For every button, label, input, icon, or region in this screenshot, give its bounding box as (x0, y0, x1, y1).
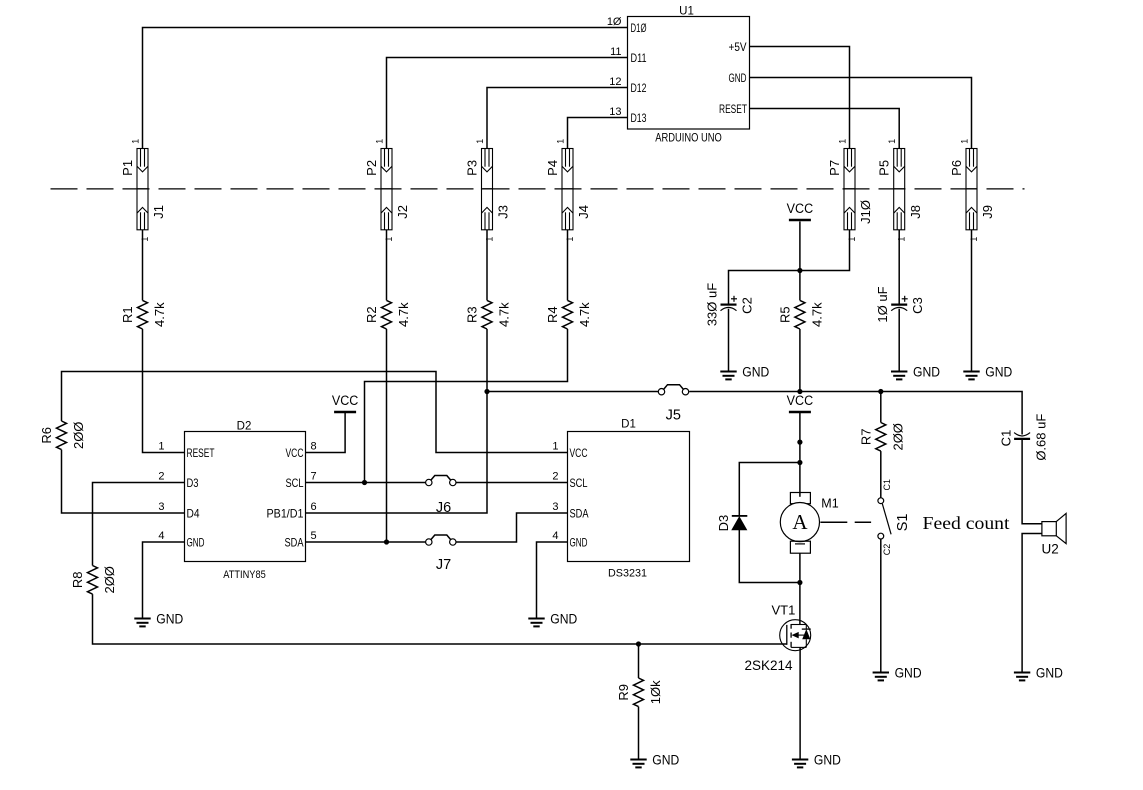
wire VCC net node to R7 (880, 392, 882, 423)
svg-text:D1: D1 (621, 419, 636, 431)
svg-text:D2: D2 (237, 421, 252, 433)
svg-text:M1: M1 (821, 497, 838, 511)
resistor R3 body (482, 300, 492, 329)
svg-text:R5: R5 (777, 306, 792, 323)
resistor R9 body (634, 678, 644, 707)
svg-text:4.7k: 4.7k (810, 302, 825, 327)
connector P7 (plug, top half) (827, 139, 855, 189)
IC D2 ATTINY85 (158, 421, 316, 582)
svg-text:1: 1 (969, 237, 979, 242)
wire R6 bottom to D4 pin 3 of D2 (62, 450, 185, 513)
pin 12 D12 of U1 (609, 76, 646, 95)
svg-text:D4: D4 (187, 506, 200, 520)
connector P4 (plug, top half) (545, 139, 573, 189)
svg-text:3: 3 (158, 501, 164, 513)
wire R5 to VCC net node (799, 329, 801, 392)
wire R4 down and over to SCL node (365, 329, 568, 483)
pin 2 D3 of D2 (158, 471, 198, 490)
svg-text:R2: R2 (364, 306, 379, 323)
svg-text:Ø.68 uF: Ø.68 uF (1034, 414, 1049, 461)
IC D1 DS3231 (552, 419, 689, 580)
wire D2 VCC pin 8 to VCC (306, 412, 346, 453)
svg-text:GND: GND (187, 535, 205, 549)
svg-text:1Ø: 1Ø (607, 16, 622, 28)
ground GND (U2/C1) (1014, 672, 1030, 674)
junction node VCC/C2/R5/J10 (797, 268, 802, 273)
svg-text:1: 1 (959, 139, 969, 144)
svg-text:33Ø uF: 33Ø uF (705, 283, 720, 326)
svg-text:GND: GND (913, 364, 940, 379)
svg-text:2SK214: 2SK214 (745, 658, 794, 673)
svg-text:VCC: VCC (787, 201, 814, 216)
svg-text:ATTINY85: ATTINY85 (223, 569, 266, 581)
pin 8 VCC of D2 (286, 441, 317, 460)
ground GND (VT1 source) (792, 759, 808, 761)
svg-text:1: 1 (158, 441, 164, 453)
switch S1 (878, 479, 911, 555)
svg-text:VCC: VCC (286, 446, 304, 460)
svg-text:J1: J1 (151, 205, 166, 219)
connector J1Ø (socket, bottom half) (844, 189, 873, 242)
pin 6 PB1/D1 of D2 (267, 501, 317, 520)
svg-text:DS3231: DS3231 (608, 567, 647, 579)
svg-text:D12: D12 (631, 81, 647, 95)
ground GND (C3) (891, 371, 907, 373)
svg-text:J1Ø: J1Ø (858, 200, 873, 224)
svg-text:GND: GND (550, 611, 577, 626)
svg-text:5: 5 (311, 530, 317, 542)
svg-text:J7: J7 (436, 557, 451, 573)
svg-text:SDA: SDA (285, 535, 304, 549)
wire D2 pin 2 D3 to R8 (93, 483, 185, 566)
svg-text:2: 2 (552, 471, 558, 483)
wire U1 RESET to P5 (750, 109, 900, 149)
svg-text:7: 7 (311, 471, 317, 483)
resistor R7 body (876, 423, 886, 452)
connector J3 (socket, bottom half) (482, 189, 511, 242)
svg-text:S1: S1 (895, 514, 911, 532)
svg-text:VT1: VT1 (772, 603, 796, 618)
svg-text:P2: P2 (364, 160, 379, 176)
mechanical link motor M1 to switch S1 (dashed) (820, 521, 847, 523)
ground GND (J9) (963, 371, 979, 373)
wire VCC net: R3 node to jumper J5 (487, 391, 658, 393)
svg-text:13: 13 (609, 106, 621, 118)
pin 13 D13 of U1 (609, 106, 646, 125)
svg-text:P5: P5 (877, 160, 892, 176)
jumper J6 (426, 479, 432, 485)
pin 4 GND of D2 (158, 530, 204, 549)
junction node motor/D3 top (797, 460, 802, 465)
svg-text:1: 1 (887, 139, 897, 144)
wire C2 minus plate to ground (728, 309, 730, 372)
jumper J7 (426, 539, 432, 545)
svg-text:GND: GND (156, 611, 183, 626)
svg-text:8: 8 (311, 441, 317, 453)
svg-text:D11: D11 (631, 51, 647, 65)
svg-text:J6: J6 (436, 500, 451, 516)
connector P1 (plug, top half) (120, 139, 148, 189)
svg-text:J5: J5 (666, 408, 681, 424)
svg-text:C1: C1 (882, 479, 892, 491)
capacitor C3 10uF polarized (875, 286, 925, 322)
svg-text:U1: U1 (679, 5, 694, 17)
pin 7 SCL of D2 (286, 471, 317, 490)
resistor R6 body (57, 421, 67, 450)
svg-text:11: 11 (610, 46, 621, 58)
svg-text:GND: GND (1036, 665, 1063, 680)
svg-text:+5V: +5V (729, 40, 747, 54)
svg-text:12: 12 (609, 76, 621, 88)
junction node motor/D3 bottom (797, 580, 802, 585)
wire U1 D10 to P1 (143, 28, 628, 149)
svg-text:ARDUINO UNO: ARDUINO UNO (655, 132, 722, 144)
svg-text:GND: GND (729, 71, 747, 85)
resistor R1 body (138, 300, 148, 329)
wire J9 down to ground (971, 230, 973, 372)
wire D2 GND pin 4 to ground (143, 542, 185, 619)
svg-text:VCC: VCC (787, 393, 814, 408)
svg-text:R1: R1 (120, 306, 135, 323)
svg-text:D3: D3 (187, 476, 199, 490)
wire SCL: D2 pin 7 to jumper J6 (306, 482, 426, 484)
wire R3 down to PB1/D1 pin 6 of D2 (306, 329, 488, 513)
svg-text:4.7k: 4.7k (396, 302, 411, 327)
svg-text:J8: J8 (908, 205, 923, 219)
speaker U2 (1042, 513, 1067, 556)
svg-text:R3: R3 (465, 306, 480, 323)
resistor R5 body (795, 300, 805, 329)
svg-text:2ØØ: 2ØØ (102, 566, 117, 593)
pin 3 D4 of D2 (158, 501, 199, 520)
capacitor C1 0.68uF (999, 414, 1049, 461)
ground GND (C2) (720, 371, 736, 373)
pin 1 RESET of D2 (158, 441, 215, 460)
wire R2 down to SDA node (386, 329, 388, 542)
svg-text:1: 1 (847, 237, 857, 242)
wire SDA: jumper J7 to D1 SDA pin 3 (456, 513, 567, 542)
wire J4 to R4 (567, 230, 569, 301)
svg-text:RESET: RESET (187, 446, 215, 460)
junction node R3/VCC net (484, 389, 489, 394)
junction node on VCC-motor wire (797, 440, 802, 445)
svg-text:A: A (792, 510, 808, 534)
svg-text:J9: J9 (980, 205, 995, 219)
wire D1 GND pin 4 to ground (537, 542, 568, 619)
IC U1 ARDUINO UNO (607, 5, 750, 144)
wire motor M1 minus to VT1 drain (799, 553, 801, 624)
svg-text:R7: R7 (858, 428, 873, 445)
wire J8 down to C3 (898, 230, 900, 304)
pin 4 GND of D1 (552, 530, 587, 549)
svg-text:2ØØ: 2ØØ (71, 422, 86, 449)
wire SCL: jumper J6 to D1 pin 2 (456, 482, 567, 484)
wire R7 to switch S1 contact C1 (880, 451, 882, 498)
wire R9 to ground (638, 707, 640, 760)
svg-text:C2: C2 (882, 544, 892, 556)
svg-text:PB1/D1: PB1/D1 (267, 506, 304, 520)
junction node R5/VCC net (797, 389, 802, 394)
ground GND (R9) (630, 759, 646, 761)
svg-text:1: 1 (555, 139, 565, 144)
dashed boundary line between P and J connector rows (51, 188, 1025, 190)
transistor VT1 2SK214 MOSFET (745, 603, 811, 674)
wire gate node to R9 (638, 644, 640, 678)
wire J1 to R1 (142, 230, 144, 301)
connector J4 (socket, bottom half) (562, 189, 591, 242)
wire R6 top to DS3231 VCC pin 1 (62, 372, 568, 453)
wire node to diode D3 anode branch (739, 463, 800, 516)
power symbol VCC (motor branch) (789, 411, 811, 414)
capacitor C2 330uF polarized (705, 283, 755, 326)
connector J1 (socket, bottom half) (137, 189, 166, 242)
svg-text:1Øk: 1Øk (648, 680, 663, 704)
pin 3 SDA of D1 (552, 501, 588, 520)
svg-text:J4: J4 (576, 205, 591, 219)
diode D3 (716, 515, 747, 532)
svg-text:SDA: SDA (570, 506, 589, 520)
wire R8 to VT1 gate (node with R9) (93, 594, 787, 644)
wire J2 to R2 (386, 230, 388, 301)
connector J9 (socket, bottom half) (966, 189, 995, 242)
resistor R4 body (563, 300, 573, 329)
svg-text:GND: GND (652, 752, 679, 767)
wire VCC to R5 (799, 222, 801, 301)
wire diode D3 cathode back to motor minus node (739, 530, 800, 583)
connector P3 (plug, top half) (464, 139, 492, 189)
svg-text:GND: GND (814, 752, 841, 767)
wire speaker U2 bottom terminal to ground (1022, 534, 1042, 673)
svg-text:SCL: SCL (570, 476, 588, 490)
svg-text:SCL: SCL (286, 476, 304, 490)
svg-text:1: 1 (140, 237, 150, 242)
svg-text:4.7k: 4.7k (577, 302, 592, 327)
svg-text:P3: P3 (464, 160, 479, 176)
svg-text:1: 1 (837, 139, 847, 144)
wire switch S1 contact C2 to ground (880, 539, 882, 673)
svg-text:Feed count: Feed count (923, 513, 1010, 533)
svg-text:D3: D3 (716, 515, 731, 532)
wire C1 bottom to speaker U2 top terminal (1022, 439, 1042, 524)
svg-text:4.7k: 4.7k (152, 302, 167, 327)
svg-text:GND: GND (985, 364, 1012, 379)
svg-text:J2: J2 (395, 205, 410, 219)
junction node SDA/R2 (384, 539, 389, 544)
wire U1 GND to P6 (750, 78, 972, 149)
wire VCC symbol to motor M1 plus terminal (799, 412, 801, 497)
svg-text:R8: R8 (70, 571, 85, 588)
svg-text:VCC: VCC (332, 393, 359, 408)
svg-text:U2: U2 (1042, 541, 1059, 556)
svg-text:P1: P1 (120, 160, 135, 176)
svg-text:1Ø uF: 1Ø uF (875, 286, 890, 322)
svg-text:1: 1 (565, 237, 575, 242)
svg-text:C2: C2 (740, 297, 755, 314)
wire VCC net: jumper J5 to C1 top (689, 392, 1022, 435)
connector J2 (socket, bottom half) (381, 189, 410, 242)
svg-text:1: 1 (130, 139, 140, 144)
pin 10 D1Ø of U1 (607, 16, 647, 35)
svg-text:4.7k: 4.7k (497, 302, 512, 327)
wire J10 down to VCC/C2 node (729, 230, 850, 304)
svg-text:P7: P7 (827, 160, 842, 176)
svg-text:4: 4 (158, 530, 164, 542)
svg-text:D13: D13 (631, 111, 647, 125)
svg-text:RESET: RESET (719, 102, 747, 116)
ground GND (D2 pin 4) (134, 618, 150, 620)
svg-text:C3: C3 (910, 297, 925, 314)
wire SDA: D2 pin 5 to jumper J7 (306, 541, 426, 543)
svg-text:GND: GND (570, 535, 588, 549)
pin 11 D11 of U1 (610, 46, 647, 65)
wire J3 to R3 (486, 230, 488, 301)
wire R1 to U2 attiny RESET pin 1 (143, 329, 185, 453)
wire U1 D11 to P2 (387, 58, 628, 149)
svg-text:2: 2 (158, 471, 164, 483)
pin 5 SDA of D2 (285, 530, 317, 549)
resistor R2 body (382, 300, 392, 329)
connector P2 (plug, top half) (364, 139, 392, 189)
resistor R8 body (88, 566, 98, 595)
pin 2 SCL of D1 (552, 471, 587, 490)
connector J8 (socket, bottom half) (894, 189, 923, 242)
power symbol VCC (top, above R5) (789, 219, 811, 222)
svg-text:C1: C1 (999, 430, 1014, 447)
svg-text:1: 1 (552, 441, 558, 453)
svg-text:GND: GND (895, 665, 922, 680)
svg-text:2ØØ: 2ØØ (891, 423, 906, 450)
ground GND (D1 pin 4) (528, 618, 544, 620)
ground GND (S1) (873, 672, 889, 674)
svg-text:1: 1 (384, 237, 394, 242)
svg-text:D1Ø: D1Ø (631, 21, 647, 35)
svg-text:J3: J3 (496, 205, 511, 219)
svg-text:R4: R4 (545, 306, 560, 323)
svg-text:1: 1 (897, 237, 907, 242)
svg-text:GND: GND (742, 364, 769, 379)
svg-text:3: 3 (552, 501, 558, 513)
svg-text:4: 4 (552, 530, 558, 542)
wire U1 D12 to P3 (487, 88, 628, 149)
motor M1 (780, 493, 838, 554)
junction node gate/R9 (636, 641, 641, 646)
svg-text:VCC: VCC (570, 446, 588, 460)
svg-text:R9: R9 (616, 684, 631, 701)
svg-text:6: 6 (311, 501, 317, 513)
junction node SCL/R4 (362, 480, 367, 485)
svg-text:P6: P6 (949, 160, 964, 176)
wire C3 minus plate to ground (898, 309, 900, 372)
wire VT1 source to ground (799, 647, 801, 759)
power symbol VCC (at D2 pin 8) (334, 411, 356, 414)
connector P6 (plug, top half) (949, 139, 977, 189)
svg-text:R6: R6 (39, 427, 54, 444)
svg-text:P4: P4 (545, 160, 560, 176)
wire U1 +5V to P7 (750, 47, 850, 149)
svg-text:1: 1 (374, 139, 384, 144)
pin 1 VCC of D1 (552, 441, 587, 460)
svg-text:1: 1 (484, 237, 494, 242)
svg-text:1: 1 (475, 139, 485, 144)
junction node R7/VCC net (878, 389, 883, 394)
jumper J5 (658, 389, 664, 395)
wire U1 D13 to P4 (568, 118, 628, 149)
connector P5 (plug, top half) (877, 139, 905, 189)
